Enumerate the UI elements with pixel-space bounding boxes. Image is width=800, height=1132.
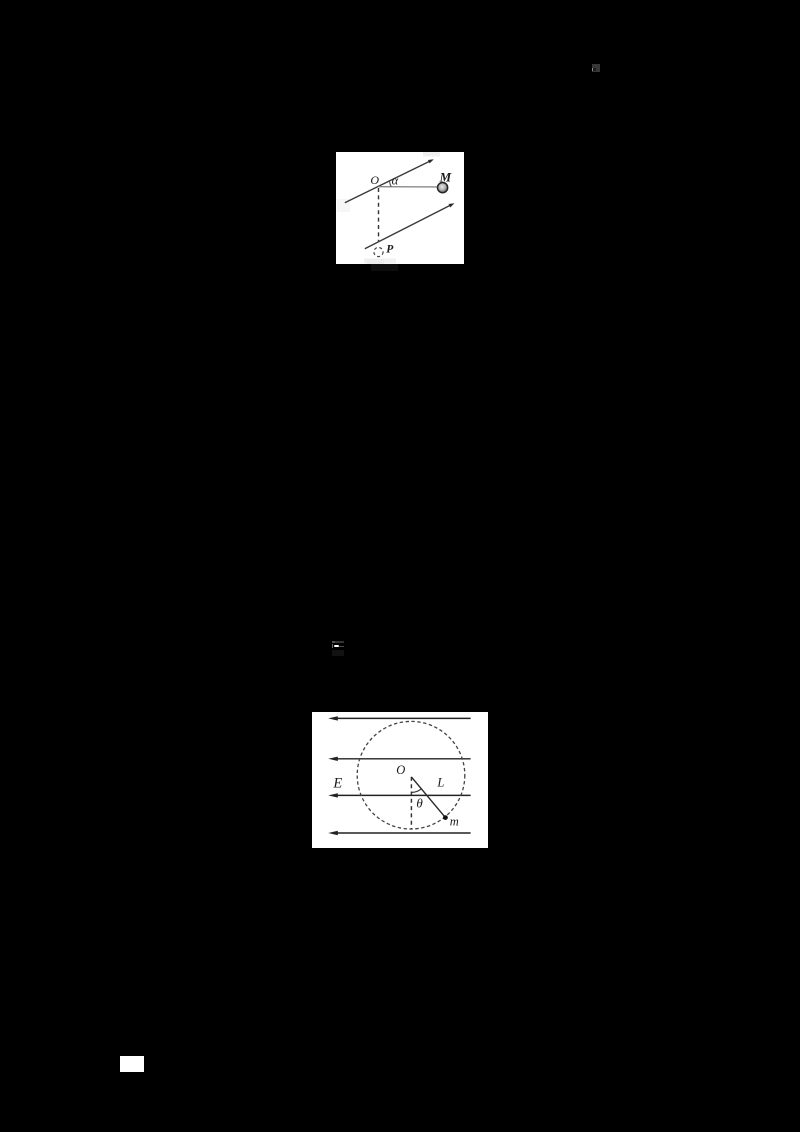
svg-text:E: E bbox=[332, 775, 342, 791]
svg-text:α: α bbox=[392, 174, 399, 188]
svg-text:O: O bbox=[396, 763, 405, 777]
svg-text:L: L bbox=[436, 775, 444, 789]
svg-text:M: M bbox=[439, 170, 452, 185]
svg-text:θ: θ bbox=[416, 795, 423, 810]
svg-text:O: O bbox=[370, 173, 379, 187]
svg-text:m: m bbox=[450, 814, 459, 828]
svg-text:P: P bbox=[386, 243, 394, 255]
